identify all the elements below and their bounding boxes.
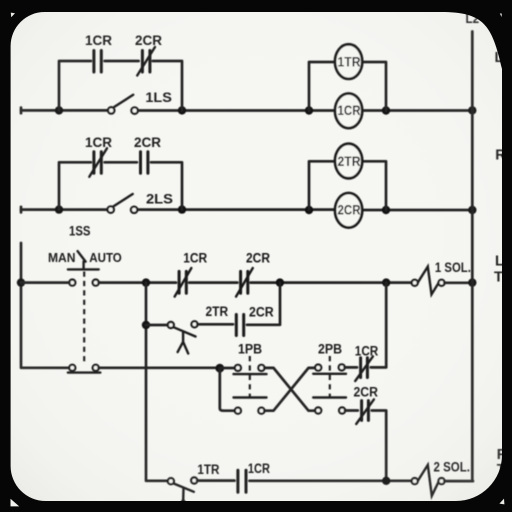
solenoid 1 SOL xyxy=(412,280,418,286)
solenoid 2 SOL xyxy=(412,478,418,484)
junction 2TR branch xyxy=(142,321,150,329)
wire rung1 left tick xyxy=(20,108,23,114)
junction rung2 rail xyxy=(468,206,476,214)
wire X crossing upper-left to lower-right xyxy=(264,368,315,411)
slash 2CR man-rung xyxy=(236,268,253,297)
coil 1CR xyxy=(335,94,362,129)
slash 1CR pb-row xyxy=(355,356,373,381)
junction left rail MAN rung xyxy=(17,278,25,286)
pushbutton 2PB upper (NC) xyxy=(315,365,321,371)
junction 1SOL rail xyxy=(468,278,476,286)
wire bottom rung xyxy=(197,479,412,482)
wire 2CR to vertical x386 lower xyxy=(372,411,386,481)
pushbutton 1PB upper (NC) xyxy=(220,367,235,370)
pushbutton 2PB lower (NO) xyxy=(313,396,346,398)
contact 1CR NC rung2 xyxy=(94,152,101,174)
junction man-rung 2TR-branch return xyxy=(276,278,284,286)
coil 2CR xyxy=(335,193,362,228)
wire rung2 branch xyxy=(59,162,182,209)
wire selector lower rung to 1PB xyxy=(99,366,216,369)
pushbutton 1PB lower (NO) xyxy=(234,396,267,398)
junction rung2 node A xyxy=(55,205,63,213)
selector dashed link xyxy=(83,272,85,364)
junction rung1 rail xyxy=(468,106,476,114)
junction bottom rung x386 xyxy=(382,477,390,485)
wire 2PB upper to 1CR xyxy=(345,366,357,369)
contact 2CR NO 2TR-row xyxy=(236,315,243,336)
wire rung2 left tick xyxy=(20,207,23,213)
pushbutton 2PB dashed stem xyxy=(329,356,331,397)
wire rung1 branch xyxy=(59,61,182,110)
contact 2CR NC pb-row xyxy=(362,401,369,421)
contact 2CR NC rung1 xyxy=(142,51,150,73)
junction man-rung x386 xyxy=(382,278,390,286)
junction rung2 node B xyxy=(178,205,186,213)
junction rung1 coil-left xyxy=(305,106,313,114)
slash 1CR man-rung xyxy=(175,268,192,297)
slash 2CR pb-row xyxy=(356,399,374,424)
pushbutton 1PB dashed stem xyxy=(249,356,251,397)
wire 2TR row xyxy=(146,283,280,325)
limit switch 1LS xyxy=(108,107,114,113)
selector lower pole xyxy=(69,365,75,371)
junction rung2 coil-right xyxy=(382,206,390,214)
junction MAN rung x146 xyxy=(142,278,150,286)
wire elbow to lower PB row xyxy=(220,368,235,411)
contact 2CR NO rung2 xyxy=(141,152,148,174)
wire 1CR to vertical x386 upper xyxy=(371,283,386,368)
contact 2CR NC man-rung xyxy=(241,271,248,293)
wire X crossing lower-left to upper-right xyxy=(264,368,315,411)
wire 1TR branch xyxy=(309,62,386,111)
wire 2TR branch xyxy=(309,161,386,210)
coil 2TR xyxy=(335,144,362,179)
contact 1CR NO bottom xyxy=(238,470,246,492)
junction rung1 node A xyxy=(55,106,63,114)
artifact white speck top-right xyxy=(500,13,502,17)
junction rung1 node B xyxy=(178,106,186,114)
timed contact 2TR xyxy=(168,322,174,328)
wire 2PB lower to 2CR xyxy=(345,409,358,412)
limit switch 2LS xyxy=(108,206,114,212)
wire MAN rung xyxy=(21,281,412,284)
artifact white triangle bottom-left xyxy=(11,499,20,507)
wire rung1 main xyxy=(21,109,470,112)
junction rung1 coil-right xyxy=(382,106,390,114)
slash 1CR rung2 xyxy=(89,148,107,177)
contact 1CR NO rung1 xyxy=(94,51,101,73)
junction rung2 coil-left xyxy=(305,206,313,214)
wire rung2 main xyxy=(21,208,470,211)
wire vertical x146 xyxy=(146,283,168,481)
artifact white speck top-left xyxy=(11,13,15,18)
artifact white notch bottom-right xyxy=(499,499,504,505)
coil 1TR xyxy=(335,44,362,79)
timed contact 1TR bottom xyxy=(168,478,174,484)
wire left rail lower section xyxy=(21,243,69,368)
contact 1CR NC man-rung xyxy=(179,271,186,293)
wire right rail L2 xyxy=(471,32,474,482)
slash 2CR rung1 xyxy=(137,47,155,76)
contact 1CR NC pb-row xyxy=(361,358,368,378)
junction 1PB node xyxy=(215,364,224,373)
